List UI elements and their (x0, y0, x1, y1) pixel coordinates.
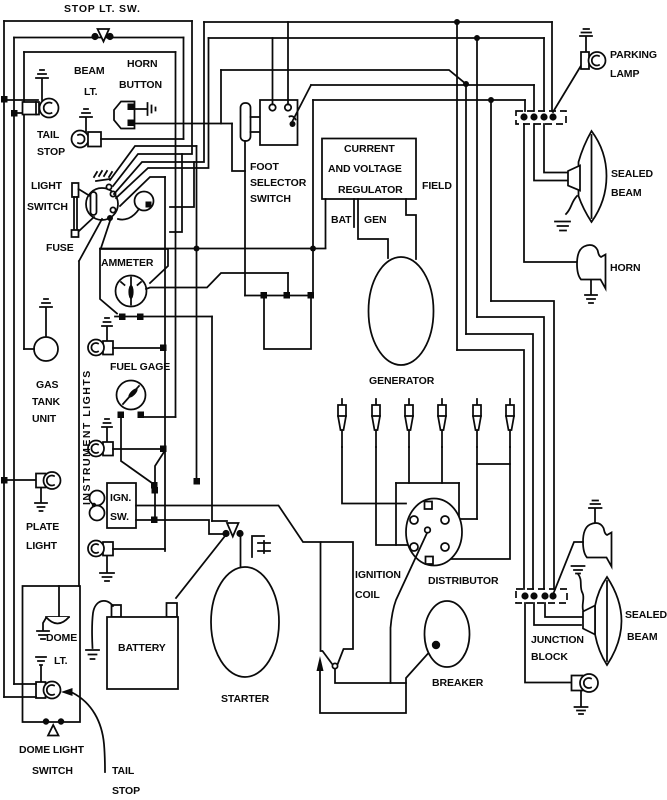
svg-text:TANK: TANK (32, 396, 61, 408)
svg-text:LIGHT: LIGHT (26, 540, 58, 552)
switch S3 dome light (43, 718, 64, 735)
wire vertical from node A (456, 22, 458, 350)
wire bus left leg (395, 483, 397, 545)
wire plug2 to distributor (376, 447, 408, 545)
label DOME LT. (46, 632, 77, 667)
distributor cap (406, 499, 462, 566)
pin distributor center (425, 527, 431, 533)
svg-text:STARTER: STARTER (221, 693, 270, 705)
wire fan c (110, 146, 197, 180)
svg-text:LT.: LT. (54, 655, 68, 667)
label LIGHT SWITCH (27, 180, 68, 213)
svg-text:REGULATOR: REGULATOR (338, 184, 403, 196)
beam lamp (72, 131, 102, 148)
wire nested corner 1 (457, 350, 524, 589)
label PARKING LAMP (610, 49, 657, 80)
wire switch to dome feeder (79, 219, 102, 586)
dome light lamp (36, 682, 61, 699)
starter motor (211, 567, 279, 677)
node square tie 2 (284, 292, 291, 299)
label BEAM LT. (74, 65, 105, 98)
ground above parking lamp (580, 29, 592, 52)
wire tail lamp feed 1 (4, 99, 38, 101)
svg-text:LAMP: LAMP (610, 68, 639, 80)
svg-text:DISTRIBUTOR: DISTRIBUTOR (428, 575, 499, 587)
wire ammeter to starter switch drop (211, 317, 213, 522)
wire lower right pin stub (449, 519, 456, 546)
label PLATE LIGHT (26, 521, 59, 552)
svg-text:LT.: LT. (84, 86, 98, 98)
tail lamp right socket (572, 674, 599, 692)
wire bus right leg to upper right pin (448, 483, 477, 519)
label SEALED BEAM lower (625, 609, 667, 643)
node terminal square fuel drop (151, 482, 158, 489)
wire left border vertical 1 (3, 21, 5, 697)
svg-text:SEALED: SEALED (625, 609, 667, 621)
foot selector switch body (260, 100, 298, 145)
label TAIL STOP (37, 129, 65, 158)
wire BAT terminal drop (325, 199, 327, 248)
sealed beam lower lens (595, 577, 622, 665)
wire block2 to beam2 stub lower (534, 603, 581, 625)
pin 1 foot selector (269, 104, 275, 110)
node square ign wire (151, 517, 158, 524)
ground above instrument socket 1 (102, 318, 112, 341)
wire dome feed 2 (4, 696, 36, 698)
svg-text:JUNCTION: JUNCTION (531, 634, 584, 646)
sealed beam upper lens (579, 131, 607, 222)
svg-text:INSTRUMENT LIGHTS: INSTRUMENT LIGHTS (81, 369, 93, 505)
pin switch c (110, 207, 115, 212)
pin distributor top (425, 502, 433, 510)
svg-text:SWITCH: SWITCH (27, 201, 68, 213)
wire fuse to switch lower (79, 217, 94, 231)
battery terminal 2 (167, 603, 178, 617)
wire ammeter bottom run (115, 316, 212, 318)
pin switch a (106, 184, 111, 189)
battery terminal 1 (112, 605, 122, 617)
instrument light socket 1 (88, 340, 113, 356)
node breaker points (432, 641, 440, 649)
horn upper (577, 245, 606, 289)
ignition switch box (107, 483, 136, 528)
wire beam lower ground squiggle (578, 574, 583, 610)
wire nested corner 3 (477, 317, 544, 589)
wire vertical to junction block pin 3 (543, 38, 545, 111)
node square fuel 2 (138, 412, 145, 419)
label JUNCTION BLOCK (531, 634, 584, 663)
wire stop light line right part (209, 37, 545, 39)
wire socket3 to bus (113, 548, 165, 550)
wire top border 1 right (204, 21, 552, 23)
wire fan a (113, 21, 192, 186)
node junction dot E (194, 246, 200, 252)
svg-text:HORN: HORN (127, 58, 158, 70)
svg-text:SWITCH: SWITCH (32, 765, 73, 777)
generator G1 (369, 257, 434, 365)
wire horn button riser (220, 70, 222, 124)
svg-text:BATTERY: BATTERY (118, 642, 166, 654)
wire beam lamp to border2 drop (101, 138, 184, 140)
spark plug 3 (405, 399, 413, 447)
wire pin2 up (287, 22, 289, 105)
svg-text:FIELD: FIELD (422, 180, 452, 192)
label TAIL STOP bottom (112, 765, 140, 797)
svg-text:BAT: BAT (331, 214, 352, 226)
sealed beam upper connector (568, 166, 580, 191)
wire selector plug drop (244, 141, 246, 296)
svg-text:STOP: STOP (37, 146, 65, 158)
node square tie 3 (308, 292, 315, 299)
junction block 2 (516, 589, 567, 603)
junction block 1 (516, 111, 566, 124)
svg-text:CURRENT: CURRENT (344, 143, 395, 155)
spark plug 5 (473, 399, 481, 447)
spark plug 2 (372, 399, 380, 447)
tail stop lamp (23, 99, 59, 118)
fuse F1 (72, 183, 79, 237)
ground above dome light lamp (36, 657, 46, 682)
svg-text:SELECTOR: SELECTOR (250, 177, 307, 189)
wire fuel gage to ign terminal (121, 418, 152, 483)
svg-text:BEAM: BEAM (627, 631, 658, 643)
wire plug56 tie (477, 463, 510, 465)
wire nested corner 4 (491, 301, 554, 589)
pin distributor lower left (410, 543, 418, 551)
light switch dimmer (118, 192, 154, 220)
wire vertical from node B (476, 38, 478, 317)
svg-text:GEN: GEN (364, 214, 386, 226)
ground tail lamp right (575, 691, 588, 714)
wire regulator drop (312, 100, 314, 296)
wire fan e (120, 177, 165, 206)
svg-text:LIGHT: LIGHT (31, 180, 63, 192)
svg-text:TAIL: TAIL (112, 765, 135, 777)
wire fan d (116, 38, 209, 198)
node terminal square branch (152, 487, 159, 494)
node terminal square tail 2 (11, 110, 18, 117)
wire tail stop pointer (73, 693, 105, 772)
wire sealed beam upper ground squiggle (566, 196, 577, 214)
wire starter switch to starter (240, 537, 242, 567)
wire ammeter right output (146, 273, 288, 289)
wire plug stub 2 (251, 131, 261, 133)
svg-text:GAS: GAS (36, 379, 59, 391)
node junction dot B (474, 35, 480, 41)
svg-text:SW.: SW. (110, 511, 129, 523)
ground starter switch (252, 536, 270, 557)
node terminal square tail 1 (1, 96, 8, 103)
svg-text:FOOT: FOOT (250, 161, 279, 173)
plate light lamp (36, 472, 61, 489)
ignition coil body (321, 542, 354, 665)
wire vertical to junction block pin 2 (533, 85, 535, 111)
wire output drop to tie (287, 273, 289, 296)
label DOME LIGHT SWITCH (19, 744, 85, 777)
wire fan b (114, 22, 204, 194)
wire block1 pin2 to sealed beam lower stub (534, 124, 569, 181)
dome lamp (46, 586, 69, 624)
svg-text:AND VOLTAGE: AND VOLTAGE (328, 163, 402, 175)
wire top border 1 left (4, 20, 192, 22)
pin 2 foot selector (285, 104, 291, 110)
wire border2 drop (183, 38, 185, 140)
instrument light socket 3 (88, 541, 113, 557)
pin distributor upper right (441, 516, 449, 524)
arrow dome lamp pointer (61, 688, 73, 696)
node square ammeter 1 (119, 314, 126, 321)
svg-text:PLATE: PLATE (26, 521, 59, 533)
wire vertical from node C (465, 84, 467, 334)
switch S1 stop light switch (91, 29, 113, 42)
label CURRENT AND VOLTAGE REGULATOR (328, 143, 403, 196)
spark plug 6 (506, 399, 514, 447)
wire switch to ammeter (101, 221, 110, 248)
wire foot selector to regulator line (313, 99, 525, 101)
horn button plug (135, 103, 156, 115)
pin distributor upper left (410, 516, 418, 524)
ground above tail lamp (36, 70, 48, 100)
wire instrument lights bus (164, 177, 166, 551)
wire plug3 drop (408, 447, 410, 483)
wire distributor center to coil circuit (391, 533, 428, 683)
instrument light socket 2 (88, 441, 113, 457)
ground above instrument socket 2 (102, 419, 112, 442)
wire weave loop 1 (170, 154, 182, 232)
wire socket1 to bus (113, 347, 165, 349)
wire coil bottom to breaker (320, 648, 433, 713)
pin switch b (110, 191, 115, 196)
breaker housing (425, 601, 470, 667)
wire gas tank feed (24, 348, 34, 350)
svg-text:BLOCK: BLOCK (531, 651, 568, 663)
wire horn lower to block2 (554, 542, 583, 592)
ground dome lamp (37, 618, 49, 639)
wire block1 pin1 to horn (524, 124, 578, 262)
label GAS TANK UNIT (32, 379, 61, 425)
wire left border vertical 3 (23, 52, 25, 349)
wire horn button feed (221, 70, 466, 84)
wire socket2 to bus (113, 448, 165, 450)
wire inner border 3 top (24, 51, 176, 53)
svg-text:SWITCH: SWITCH (250, 193, 291, 205)
wire vertical to junction block pin 1 (524, 100, 526, 111)
node terminal square plate (1, 477, 8, 484)
wire dome feed 1 (14, 683, 36, 685)
node junction dot A (454, 19, 460, 25)
wire horn drop to selector loop (232, 124, 245, 172)
spark plug 4 (438, 399, 446, 447)
node square tie 1 (261, 292, 268, 299)
ground above beam lamp (80, 109, 92, 132)
dome switch box (23, 586, 81, 722)
svg-text:HORN: HORN (610, 262, 641, 274)
wire block2 to tail lamp right (525, 603, 572, 683)
wire left border vertical 2 (13, 38, 15, 685)
wire plug1 to distributor (342, 447, 406, 504)
svg-text:STOP: STOP (112, 785, 140, 797)
node square socket2 (160, 446, 167, 453)
horn lower (583, 523, 612, 567)
ground sealed beam upper (555, 222, 570, 231)
parking lamp (581, 52, 606, 69)
label IGN. SW. (110, 492, 131, 523)
node terminal square instrument feed (194, 478, 201, 485)
pin distributor lower right (441, 543, 449, 551)
wire ign switch to coil (136, 506, 321, 543)
ground above gas tank unit (40, 299, 52, 337)
svg-text:BEAM: BEAM (611, 187, 642, 199)
node junction dot D (488, 97, 494, 103)
svg-text:FUSE: FUSE (46, 242, 74, 254)
wire instrument feed drop (196, 146, 198, 478)
ignition switch plug (90, 491, 105, 521)
wire starter switch to battery (176, 536, 225, 598)
wire fuel gage to border3 (141, 416, 176, 418)
wire FIELD terminal to generator (406, 199, 416, 259)
wire nested corner 2 (466, 334, 533, 589)
wire plug34 bus (396, 482, 459, 484)
node junction dot C (463, 81, 469, 87)
label SEALED BEAM upper (611, 168, 654, 199)
wire tail lamp feed 2 (14, 112, 23, 114)
wire GEN terminal to generator (358, 199, 388, 258)
svg-text:DOME: DOME (46, 632, 77, 644)
svg-text:PARKING: PARKING (610, 49, 657, 61)
ground above horn lower (589, 501, 602, 525)
svg-text:IGN.: IGN. (110, 492, 131, 504)
regulator U1 box (322, 139, 416, 200)
wire block2 to beam2 stub upper (545, 603, 583, 617)
wire stop light switch line (14, 37, 184, 39)
wire ammeter to regulator BAT (100, 248, 326, 250)
wire ign switch to starter circuit (136, 520, 223, 534)
ammeter M1 (116, 276, 147, 307)
wire vertical border 3 drop to fuel gage (175, 52, 177, 417)
wire plug4 drop (441, 447, 443, 483)
svg-text:BUTTON: BUTTON (119, 79, 162, 91)
svg-text:TAIL: TAIL (37, 129, 60, 141)
svg-text:IGNITION: IGNITION (355, 569, 401, 581)
ammeter enclosure (100, 249, 168, 314)
label IGNITION COIL (355, 569, 401, 601)
arrow coil bottom terminal (317, 656, 324, 671)
node square fuel 1 (118, 412, 125, 419)
wire ammeter drop to starter switch (212, 520, 227, 522)
svg-text:STOP LT. SW.: STOP LT. SW. (64, 3, 141, 15)
wire block1 pin4 to parking lamp (553, 64, 582, 112)
svg-text:SEALED: SEALED (611, 168, 654, 180)
svg-text:AMMETER: AMMETER (101, 257, 154, 269)
ground below socket 3 (100, 556, 114, 581)
node switch bottom (107, 215, 113, 221)
svg-text:BREAKER: BREAKER (432, 677, 484, 689)
wire plate light feed (4, 479, 36, 481)
node square ammeter 2 (137, 314, 144, 321)
label HORN BUTTON (119, 58, 162, 91)
wire socket2 branch (155, 452, 164, 520)
node foot selector contact (290, 116, 296, 127)
gas tank unit (34, 337, 58, 361)
ground plate light (35, 488, 47, 511)
battery B1 (107, 617, 178, 689)
pin distributor bottom (426, 557, 434, 565)
svg-text:UNIT: UNIT (32, 413, 57, 425)
wire contact to output (293, 85, 312, 121)
wire vertical to junction block pin 4 (551, 22, 553, 111)
spark plug 1 (338, 399, 346, 447)
svg-text:FUEL GAGE: FUEL GAGE (110, 361, 170, 373)
svg-text:DOME LIGHT: DOME LIGHT (19, 744, 85, 756)
label FOOT SELECTOR SWITCH (250, 161, 307, 205)
switch S2 starter pedal (222, 523, 243, 537)
wire tie bar (245, 295, 313, 297)
ground battery (86, 650, 99, 659)
wire tie loop (264, 296, 311, 350)
wire pin1 up (272, 38, 274, 105)
wire plug stub 1 (251, 116, 261, 118)
svg-text:GENERATOR: GENERATOR (369, 375, 435, 387)
wire block1 pin3 to sealed beam upper stub (544, 124, 569, 173)
sealed beam lower connector (583, 606, 595, 635)
wire plug6 to bottom pin (431, 447, 510, 559)
ground horn upper (585, 280, 597, 303)
wire battery to ground curve (92, 601, 113, 648)
node square socket1 (160, 345, 167, 352)
svg-text:BEAM: BEAM (74, 65, 105, 77)
wire BAT divider (353, 199, 355, 227)
wire plug5 drop (476, 447, 478, 519)
ground sealed beam lower (572, 566, 585, 574)
ignition coil tip (332, 663, 337, 668)
wire coil tip to junction (335, 669, 406, 683)
horn button (114, 102, 135, 129)
svg-text:COIL: COIL (355, 589, 380, 601)
node junction dot F (310, 246, 316, 252)
light switch body (86, 171, 118, 220)
wire weave loop 2 (170, 162, 194, 207)
foot selector switch plug (241, 103, 251, 141)
wire fuse to switch upper (79, 189, 91, 196)
wire foot selector output (311, 84, 534, 86)
wire vertical from node D (490, 100, 492, 301)
wire horn button run (135, 123, 233, 125)
fuel gage M2 (117, 381, 146, 410)
